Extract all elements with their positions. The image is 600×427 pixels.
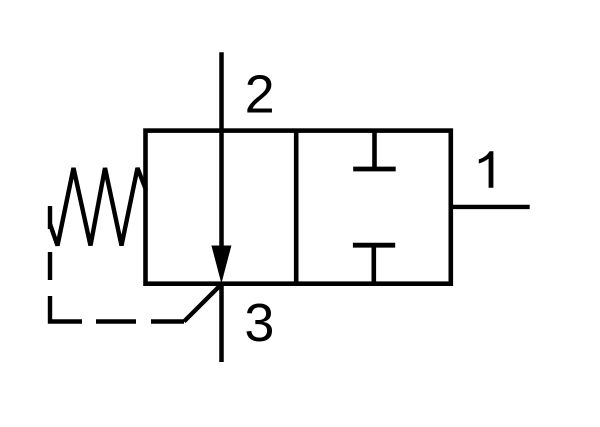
port 3 line — [219, 284, 224, 363]
position divider — [294, 131, 299, 284]
svg-text:2: 2 — [245, 65, 275, 125]
spring — [50, 168, 146, 246]
closed port T bottom — [353, 245, 395, 284]
port 1 line — [451, 205, 530, 209]
flow arrowhead — [211, 246, 231, 284]
label 1 — [479, 151, 494, 188]
svg-text:3: 3 — [244, 293, 274, 353]
closed port T top — [353, 131, 396, 169]
pilot dashed line — [50, 206, 184, 322]
pilot diagonal connector — [184, 284, 222, 322]
port 2 line — [219, 52, 224, 250]
valve body — [146, 131, 451, 284]
